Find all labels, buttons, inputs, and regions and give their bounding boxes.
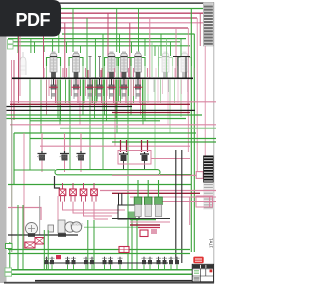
bottom valve BV3 xyxy=(67,265,69,271)
wire drop band 77 xyxy=(181,80,183,95)
wire drop band 6 xyxy=(51,80,53,100)
wire green vert bottom 8 xyxy=(127,196,129,270)
accumulator cylinder A3 xyxy=(158,180,160,197)
wire green vert bottom 2 xyxy=(17,205,19,270)
wire drop band 57 xyxy=(133,80,135,97)
valve unit V7 (light) xyxy=(175,52,194,80)
wire vertical drop 19 xyxy=(107,13,109,79)
wire drop band 73 xyxy=(169,80,171,134)
red valve RV1 xyxy=(62,183,64,189)
wire vertical drop 17 xyxy=(94,39,96,79)
terminal box bottom 2 xyxy=(5,272,12,276)
actuator rod 1 xyxy=(89,57,92,78)
wire drop band 46 xyxy=(118,80,120,102)
wire vertical drop 18 xyxy=(102,34,104,79)
wire green vert bottom 10 xyxy=(136,220,138,270)
wire drop band 16 xyxy=(73,80,75,100)
valve unit V6 (light) xyxy=(156,52,175,80)
wire drop band 24 xyxy=(87,80,89,100)
red cluster line1 xyxy=(130,221,170,223)
wire black h 218.5 xyxy=(112,218,170,220)
wire drop band 12 xyxy=(65,80,67,104)
red logo xyxy=(193,257,203,264)
valve unit V5 xyxy=(129,52,148,80)
bottom valve BV7 xyxy=(104,265,106,271)
wire pink h 146 xyxy=(40,145,190,147)
faint valve unit far left xyxy=(20,52,26,75)
wire drop band 70 xyxy=(162,80,164,95)
wire pink right drop 3 xyxy=(199,13,201,46)
green hatch in box xyxy=(128,212,136,219)
wire green h 142 xyxy=(112,141,216,143)
wire drop band 65 xyxy=(147,80,149,95)
black blob b xyxy=(58,233,66,237)
wire drop band 71 xyxy=(167,80,169,125)
wire drop band 56 xyxy=(133,80,135,104)
wire drop band 34 xyxy=(102,80,104,170)
wire drop band 61 xyxy=(142,80,144,119)
wire pink right drop 1 xyxy=(187,28,189,152)
red box bottom mid xyxy=(119,247,129,253)
wire green h 227 xyxy=(84,226,140,228)
wire vertical drop 22 xyxy=(131,42,133,53)
wire vertical drop 1 xyxy=(17,9,19,54)
wire drop band 14 xyxy=(69,80,71,170)
node terminal box A xyxy=(8,40,14,44)
wire green vert bottom 6 xyxy=(87,220,89,270)
wire green top bus xyxy=(8,8,213,10)
wire drop band 79 xyxy=(187,80,189,116)
wire black h 235 xyxy=(8,234,78,236)
valve neck stub 4 xyxy=(99,79,101,85)
valve neck stub 3 xyxy=(89,79,91,85)
wire green vert bottom 9 xyxy=(131,220,133,270)
wire black vert 118.5 xyxy=(118,193,120,205)
wire green bottom 4 xyxy=(6,273,213,275)
valve neck stub 1 xyxy=(53,79,55,85)
wire vertical drop 16 xyxy=(86,18,88,79)
wire green bus 3 xyxy=(8,38,186,40)
wire drop band 31 xyxy=(96,80,98,102)
wire black mid 2 xyxy=(7,109,196,111)
wire dark red mid 2 xyxy=(112,112,190,114)
wire pink vert low 1 xyxy=(189,197,191,225)
bottom valve BV15 xyxy=(176,265,178,271)
wire green h 138 xyxy=(30,138,216,140)
bottom valve BV13 xyxy=(164,265,166,271)
wire drop band 30 xyxy=(95,80,97,104)
wire green vert bottom 3 xyxy=(22,205,24,270)
terminal box bottom 1 xyxy=(5,268,12,272)
wire drop band 59 xyxy=(139,80,141,104)
solenoid valve SR1 xyxy=(121,140,127,152)
wire drop band 78 xyxy=(187,80,189,93)
PDF badge xyxy=(0,0,61,37)
svg-text:(xxxxxxx): (xxxxxxx) xyxy=(70,223,83,227)
wire green mid 3 xyxy=(30,120,160,122)
wire drop band 4 xyxy=(46,80,48,116)
bottom valve BV10 xyxy=(143,265,145,271)
wire drop band 64 xyxy=(147,80,149,104)
svg-text:PDF: PDF xyxy=(16,10,51,30)
wire green h 133 xyxy=(14,132,196,134)
pink outline box right xyxy=(196,196,213,207)
wire green vert bottom 7 xyxy=(93,220,95,270)
wire vertical drop 15 xyxy=(80,46,82,53)
wire green right drop 2 xyxy=(193,34,195,252)
wire green mid 1 xyxy=(7,114,203,116)
wire dark red h 193 xyxy=(112,192,200,194)
page bottom border xyxy=(4,282,214,284)
pump P1 cross xyxy=(28,225,35,232)
wire vertical drop 25 xyxy=(149,18,151,79)
wire drop band 41 xyxy=(113,80,115,104)
bottom valve BV14 xyxy=(170,265,172,271)
accumulator cylinder A2 xyxy=(147,180,149,197)
wire pink right drop 2 xyxy=(196,18,198,172)
wire dark red mid thick xyxy=(10,103,190,105)
terminal box left 243 xyxy=(6,244,13,249)
wire drop band 17 xyxy=(77,80,79,104)
wire drop band 48 xyxy=(120,80,122,104)
wire vertical drop 7 xyxy=(34,42,36,53)
red cluster box2 xyxy=(151,229,157,234)
wire drop band 76 xyxy=(180,80,182,118)
wire vertical drop 20 xyxy=(116,9,118,53)
small box comp xyxy=(48,225,54,232)
wire green mid 4 xyxy=(60,127,216,129)
wire vertical drop 13 xyxy=(66,42,68,53)
wire drop band 74 xyxy=(174,80,176,104)
wire vertical drop 21 xyxy=(119,34,121,53)
wire green bottom 3 xyxy=(6,269,213,271)
wire drop band 39 xyxy=(106,80,108,97)
wire drop band 44 xyxy=(116,80,118,104)
wire pink right h 197 xyxy=(130,196,216,198)
wire pink vert low 2 xyxy=(209,197,211,207)
main black bus line xyxy=(12,78,193,80)
wire drop band 22 xyxy=(83,80,85,104)
valve lower assembly 2 xyxy=(73,85,79,90)
wire drop band 19 xyxy=(80,80,82,97)
page background xyxy=(0,0,216,287)
valve unit V1 xyxy=(44,52,63,80)
wire left green vert xyxy=(13,133,15,185)
pink box around right valves xyxy=(118,151,151,165)
pump circle P2 xyxy=(65,222,75,232)
wire green h 174 ext xyxy=(160,174,191,176)
wire drop band 18 xyxy=(79,80,81,125)
wire black bottom row line xyxy=(44,262,168,264)
pink connector box mid-right xyxy=(196,172,203,179)
bottom valve BV2 xyxy=(51,265,53,271)
wire pink mid 1 xyxy=(10,101,216,103)
black component box xyxy=(118,205,139,219)
long black bar bottom xyxy=(35,280,192,282)
wire vertical drop 12 xyxy=(58,34,60,53)
red xbox xyxy=(35,238,44,245)
bottom valve BV6 xyxy=(91,265,93,271)
red logo stripes xyxy=(195,259,202,261)
wire black mid 1 xyxy=(7,106,133,108)
wire gray vert 39.7 xyxy=(39,196,41,235)
wire green bottom 1 xyxy=(8,249,190,251)
wire drop band 40 xyxy=(109,80,111,100)
black blob a xyxy=(28,233,35,237)
green double bus pill xyxy=(55,170,160,175)
cylinder comp xyxy=(58,220,65,233)
valve neck stub 5 xyxy=(111,79,113,85)
wire vertical drop 10 xyxy=(43,23,45,79)
wire vertical drop 9 xyxy=(52,39,54,52)
wire green bus 4 xyxy=(8,41,180,43)
wire pink staircase xyxy=(63,202,126,219)
wire vertical drop 23 xyxy=(138,9,140,53)
black elbow xyxy=(55,176,61,188)
valve lower assembly 7 xyxy=(97,85,103,90)
wire drop band 25 xyxy=(89,80,91,170)
red cluster line2 xyxy=(130,224,160,226)
wire drop band 10 xyxy=(59,80,61,125)
wire vertical drop 3 xyxy=(11,60,13,120)
wire green vert bottom 4 xyxy=(43,230,45,270)
valve neck stub 6 xyxy=(123,79,125,85)
svg-text:1Trr1: 1Trr1 xyxy=(209,237,214,248)
wire pink h 158.5 xyxy=(151,158,190,160)
wire vertical drop 24 xyxy=(129,23,131,79)
solenoid valve SR2 xyxy=(142,140,148,152)
valve neck stub 7 xyxy=(137,79,139,85)
red valve RV3 xyxy=(83,183,85,189)
revision table xyxy=(203,2,213,46)
wire drop band 13 xyxy=(68,80,70,104)
wire drop band 50 xyxy=(125,80,127,104)
valve unit V3 xyxy=(102,52,121,80)
wire drop band 15 xyxy=(71,80,73,97)
wire green bus 2 xyxy=(62,33,195,35)
actuator rod pink marks xyxy=(88,70,101,78)
wire drop band 32 xyxy=(97,80,99,100)
page right border xyxy=(213,2,214,283)
wire drop band 37 xyxy=(106,80,108,121)
valve lower assembly 6 xyxy=(87,85,93,90)
wire pink bus 3 xyxy=(8,22,205,24)
page top border xyxy=(6,2,214,4)
wire drop band 11 xyxy=(60,80,62,121)
bottom valve BV9 xyxy=(119,265,121,271)
wire drop band 5 xyxy=(48,80,50,97)
wire drop band 60 xyxy=(140,80,142,116)
wire drop band 75 xyxy=(177,80,179,104)
wire drop band 54 xyxy=(130,80,132,116)
wire vertical drop 14 xyxy=(72,9,74,53)
wire drop band 33 xyxy=(101,80,103,104)
wire pink right drop 4 xyxy=(204,23,206,200)
wire drop band 9 xyxy=(57,80,59,119)
solenoid valve SL3 xyxy=(80,133,82,151)
bottom valve BV8 xyxy=(110,265,112,271)
wire pink right h 201 xyxy=(160,201,216,203)
wire vertical drop 11 xyxy=(64,23,66,79)
wire drop band 27 xyxy=(92,80,94,104)
wire pink h 175 xyxy=(112,174,196,176)
red cluster line3 xyxy=(138,227,160,229)
pump circle P3 xyxy=(71,222,81,232)
red valve RV4 xyxy=(93,183,95,189)
actuator rod 2 xyxy=(98,57,101,78)
solenoid valve SL2 xyxy=(64,133,66,151)
bottom valve BV11 xyxy=(149,265,151,271)
wire drop band 35 xyxy=(103,80,105,97)
valve lower assembly 4 xyxy=(121,85,127,90)
wire drop band 58 xyxy=(135,80,137,100)
wire drop band 49 xyxy=(121,80,123,100)
red valve RV2 xyxy=(72,183,74,189)
bottom valve BV4 xyxy=(73,265,75,271)
wire green mid 2 xyxy=(7,118,187,120)
wire drop band 68 xyxy=(157,80,159,104)
wire drop band 63 xyxy=(144,80,146,121)
wire vertical drop 4 xyxy=(18,36,20,103)
wire drop band 28 xyxy=(94,80,96,119)
wire vertical drop 27 xyxy=(154,46,156,56)
wire green bottom 2 xyxy=(8,253,190,255)
wire drop band 66 xyxy=(153,80,155,93)
wire drop band 47 xyxy=(119,80,121,97)
bottom valve BV12 xyxy=(158,265,160,271)
wire drop band 7 xyxy=(55,80,57,104)
bottom valve BV5 xyxy=(85,265,87,271)
wire green right drop 1 xyxy=(190,9,192,253)
title block xyxy=(192,264,213,282)
wire drop band 69 xyxy=(160,80,162,104)
wire green h 219 xyxy=(130,219,156,221)
valve unit V4 xyxy=(115,52,134,80)
red cluster box xyxy=(140,230,148,237)
valve lower assembly 1 xyxy=(51,85,57,90)
wire green vert bottom 5 xyxy=(47,230,49,270)
wire green h 184 xyxy=(8,184,191,186)
wire green vert bottom 1 xyxy=(9,242,11,270)
wire drop band 26 xyxy=(91,80,93,104)
wire drop band 42 xyxy=(114,80,116,147)
wire drop band 8 xyxy=(56,80,58,104)
wire drop band 3 xyxy=(46,80,48,116)
valve lower assembly 5 xyxy=(135,85,141,90)
wire vertical drop 6 xyxy=(30,39,32,53)
red mini box 57 xyxy=(56,255,61,259)
wire pink right h 190 xyxy=(100,190,216,192)
wire pink h 207 xyxy=(8,208,41,221)
wire drop band 72 xyxy=(168,80,170,93)
bottom valve BV1 xyxy=(46,265,48,271)
wire vertical drop 29 xyxy=(175,28,177,79)
wire green drop extra 2 xyxy=(158,46,160,77)
valve unit V2 xyxy=(67,52,86,80)
wire drop band 36 xyxy=(104,80,106,116)
wire pink bus 2 xyxy=(8,17,197,19)
valve neck stub 2 xyxy=(75,79,77,85)
wire drop band 55 xyxy=(130,80,132,104)
wire pink vert 58 xyxy=(57,196,59,220)
wire drop band 52 xyxy=(128,80,130,97)
barcode block xyxy=(203,156,213,210)
wire vertical drop 31 xyxy=(180,39,182,56)
wire drop band 51 xyxy=(127,80,129,197)
wire green drop extra 3 xyxy=(166,39,168,77)
wire drop band 67 xyxy=(154,80,156,170)
accumulator cylinder A1 xyxy=(137,180,139,197)
wire black vert 182 xyxy=(181,150,183,263)
wire drop band 1 xyxy=(29,80,31,170)
wire green drop extra 1 xyxy=(151,42,153,77)
wire drop band 20 xyxy=(82,80,84,102)
node terminal box B xyxy=(8,45,14,49)
wire drop band 62 xyxy=(142,80,144,125)
wire gray vert left xyxy=(11,118,13,252)
wire drop band 38 xyxy=(106,80,108,104)
wire vertical drop 26 xyxy=(144,39,146,56)
wire drop band 43 xyxy=(115,80,117,119)
wire vertical drop 30 xyxy=(170,42,172,56)
valve lower assembly 3 xyxy=(109,85,115,90)
wire vertical drop 5 xyxy=(19,36,21,96)
wire vertical drop 2 xyxy=(13,60,15,120)
wire drop band 21 xyxy=(82,80,84,116)
wire vertical drop 8 xyxy=(43,46,45,52)
wire drop band 53 xyxy=(130,80,132,102)
solenoid valve SL1 xyxy=(41,133,43,151)
wire pink bus 4 xyxy=(8,27,188,29)
black harness right xyxy=(173,57,190,78)
wire drop band 29 xyxy=(94,80,96,97)
wire left pink vert xyxy=(23,133,25,250)
page left edge strip xyxy=(0,0,7,283)
wire black vert 176 xyxy=(175,150,177,263)
wire black vert 121.8 xyxy=(121,193,123,205)
wire green bus 5 xyxy=(8,45,190,47)
pump circle P1 xyxy=(26,223,38,235)
wire drop band 45 xyxy=(116,80,118,134)
wire pink bus 1 xyxy=(8,12,203,14)
wire vertical drop 28 xyxy=(160,34,162,56)
wire pink mid 2 xyxy=(10,124,216,126)
wire drop band 23 xyxy=(85,80,87,97)
wire drop band 2 xyxy=(40,80,42,134)
wire green h 170 ext xyxy=(14,169,55,171)
red comp left xyxy=(25,242,35,248)
